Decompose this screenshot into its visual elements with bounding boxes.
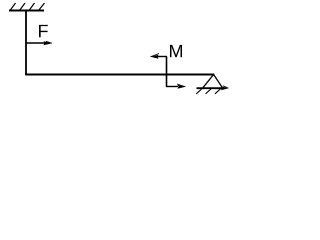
pinned support hatch 3 [215,89,221,94]
label F [39,25,48,37]
pinned support hatch 2 [206,89,212,94]
moment lower arrow head (points right) [178,85,186,89]
moment upper arrow shaft [157,56,167,58]
force arrow F head [44,41,53,45]
moment upper arrow barb [151,54,160,57]
pinned support triangle right side [214,75,223,89]
fixed support hatch 1 [10,3,16,11]
pinned support hatch 1 [196,89,202,94]
fixed support wall line (top left) [9,10,44,12]
moment couple vertical wire [166,57,168,87]
moment upper arrow head (points left) [151,55,159,59]
force arrow F shaft [26,42,45,44]
force arrow F barb [46,41,52,43]
moment lower arrow shaft [166,86,178,88]
fixed support hatch 4 [39,3,45,11]
pinned support triangle left side [202,75,213,89]
pinned support base line (arrow shaft) [197,87,223,89]
pinned support base arrowhead (points right) [221,86,229,90]
vertical member wire [25,11,27,76]
fixed support hatch 3 [29,3,35,11]
pinned support base arrow barb [223,86,229,89]
moment lower arrow barb [177,84,186,87]
horizontal beam wire [25,74,214,76]
fixed support hatch 2 [20,3,26,11]
label M [170,45,182,57]
